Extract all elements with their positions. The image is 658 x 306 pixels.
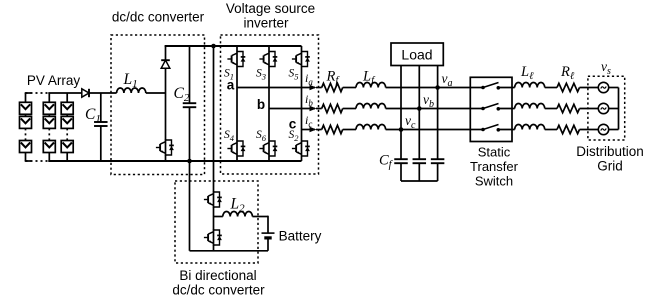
label S3 [256,68,266,82]
label PV Array [27,73,81,88]
source va grid phase a [598,82,608,92]
label Cf [379,153,394,171]
inductor Ll phase b [515,104,545,109]
label S4 [224,129,235,143]
wire Cf lower lead a [437,163,439,181]
label S1 [224,68,234,82]
PV cell column 3 row 3 [61,141,73,153]
diode D2 boost diode [161,60,170,68]
svg-text:Voltage source: Voltage source [226,1,315,16]
switch a right contact [497,86,501,90]
transistor Q2 bi-directional top IGBT [204,191,222,208]
svg-text:b: b [257,97,265,112]
wire source a to star bus [609,87,619,89]
dashed box distribution grid [588,76,625,140]
switch c blade [483,125,499,130]
label Distribution [576,144,644,159]
wire Ll to Rl phase b [545,108,557,110]
arrow ib [310,106,317,112]
wire load leg va vertical [437,66,439,160]
wire Cf lower lead c [400,163,402,181]
wire switch c right stub [498,129,514,131]
label S2 [289,129,300,143]
wire PV bottom bus dashed section [26,160,50,162]
arrow ic [310,127,317,133]
transistor Q3 bi-directional bottom IGBT [204,229,222,246]
wire load leg vc vertical [400,66,402,160]
svg-text:Switch: Switch [475,174,513,189]
wire switch a left stub [470,87,483,89]
PV cell column 1 row 1 [20,102,32,114]
resistor Rl phase b [557,104,580,112]
dashed box voltage source inverter [221,35,319,174]
wire VSI leg 1 emitter lead [236,157,238,161]
node C1 tap [100,93,102,122]
wire PV bottom bus left stub [25,160,32,162]
svg-text:Bi directional: Bi directional [179,268,256,283]
label C2 [174,85,190,104]
svg-text:Static: Static [478,145,511,160]
wire switch b left stub [470,108,483,110]
label vb [423,92,434,110]
wire boost node up to diode [165,68,167,93]
wire diode to top rail [165,46,167,60]
wire load leg vb vertical [418,66,420,160]
label phase c [289,117,297,132]
PV cell column 3 row 2 [61,116,73,128]
wire Rl to source phase b [580,108,599,110]
wire PV column 3 dashed continuation [66,128,68,140]
dashed box dc/dc converter [111,35,205,175]
wire switch b right stub [498,108,514,110]
wire Rl to source phase c [580,129,599,131]
inductor L1 [117,88,146,93]
label Rl [560,64,575,82]
battery B1 positive plate [262,232,275,234]
resistor Rl phase c [557,125,580,133]
wire source c to star bus [609,129,619,131]
transistor S4 IGBT [227,140,245,157]
label Static [478,145,511,160]
junction dot top rail battery tap [211,44,216,49]
svg-text:Grid: Grid [597,159,623,174]
wire VSI leg 1 collector lead [236,46,238,51]
wire boost node down to IGBT [165,93,167,140]
wire Lf to node phase b [386,108,471,110]
inductor Ll phase c [515,125,545,130]
inductor L2 [223,212,253,217]
resistor Rf phase b [322,104,343,112]
svg-text:Battery: Battery [279,229,322,244]
wire battery leg to bottom wire [213,246,215,251]
wire PV column 3 top lead [66,93,68,102]
transistor S3 IGBT [259,51,277,68]
switch c left contact [481,128,485,132]
capacitor C2 upper lead [189,46,191,103]
inductor Lf phase c [356,125,386,130]
junction dot vc [399,127,404,132]
wire phase b to Rf [316,108,322,110]
resistor Rf phase c [322,125,343,133]
wire phase c to Rf [316,129,322,131]
wire source b to star bus [609,108,619,110]
wire Rf to Lf phase a [343,87,356,89]
label va [442,71,453,89]
arrow ia [310,85,317,91]
wire diode to L1 input node [89,92,117,94]
svg-text:c: c [289,117,297,132]
source vc grid phase c [598,124,608,134]
wire top DC rail [165,45,302,47]
label phase b [257,97,265,112]
junction dot bottom rail battery-converter tap [187,159,192,164]
label Lf [362,69,376,87]
svg-text:dc/dc converter: dc/dc converter [112,10,205,25]
wire phase b output [269,108,315,110]
label dc/dc converter [172,283,265,298]
wire Lf to node phase c [386,129,471,131]
inductor Lf phase b [356,104,386,109]
capacitor Cf phase a [431,159,445,163]
svg-text:Load: Load [401,47,432,63]
wire C1 lower lead [100,126,102,161]
label vs [601,59,611,77]
wire PV column 1 link [25,114,27,116]
capacitor Cf phase b [413,159,427,163]
wire grid star bus [618,88,620,130]
label Grid [597,159,623,174]
label Transfer [470,159,519,174]
wire PV top bus (solid part right) [48,92,82,94]
wire PV top bus dashed section [26,92,50,94]
wire PV column 2 dashed continuation [48,128,50,140]
wire Q1 emitter to bottom rail [165,156,167,162]
PV cell column 2 row 3 [43,141,55,153]
wire phase a output [237,87,315,89]
PV cell column 2 row 2 [43,116,55,128]
transistor S6 IGBT [259,140,277,157]
diode D1 PV blocking diode [82,89,89,97]
label Bi directional [179,268,256,283]
wire switch c left stub [470,129,483,131]
svg-text:inverter: inverter [243,16,289,31]
label S5 [289,68,299,82]
inductor Ll phase a [515,83,545,88]
PV cell column 1 row 2 [20,116,32,128]
junction dot va [435,85,440,90]
label inverter [243,16,289,31]
wire bottom DC rail [48,160,301,162]
wire PV column 3 link [66,114,68,116]
wire Ll to Rl phase a [545,87,557,89]
switch b left contact [481,107,485,111]
wire Ll to Rl phase c [545,129,557,131]
wire switch a right stub [498,87,514,89]
PV cell column 2 row 1 [43,102,55,114]
wire battery negative lead [267,238,269,251]
wire VSI leg 2 emitter lead [268,157,270,161]
load box [391,43,443,66]
wire Lf to node phase a [386,87,471,89]
wire PV top bus left stub [25,92,32,94]
wire L1 to boost node [146,92,166,94]
wire VSI leg 3 collector lead [301,46,303,51]
label S6 [256,129,267,143]
transistor S5 IGBT [292,51,310,68]
label ic [305,113,312,129]
svg-text:Transfer: Transfer [470,159,519,174]
wire PV column 3 bottom lead [66,153,68,162]
switch b blade [483,104,499,109]
wire phase c output [302,129,316,131]
capacitor Cf phase c [394,159,408,163]
wire bi-directional left riser [189,161,191,251]
capacitor C1 [94,122,108,126]
label phase a [227,78,235,93]
wire battery leg middle [213,208,215,230]
transistor S1 IGBT [227,51,245,68]
wire PV column 1 bottom lead [25,153,27,162]
label ia [305,71,313,87]
label Switch [475,174,513,189]
label dc/dc converter [112,10,205,25]
wire VSI leg 2 collector lead [268,46,270,51]
label ib [305,92,313,108]
switch a left contact [481,86,485,90]
wire phase a to Rf [316,87,322,89]
label L2 [230,196,246,215]
wire VSI leg 2 middle [268,68,270,141]
wire C2 lower lead [189,107,191,161]
label Voltage source [226,1,315,16]
label Ll [520,64,534,82]
node L2 tap [214,216,223,218]
wire bi-directional bottom [190,250,269,252]
label C1 [85,106,101,125]
svg-text:PV Array: PV Array [27,73,81,88]
label Battery [279,229,322,244]
wire Cf common bus [401,180,438,182]
wire battery leg from top rail [213,46,215,192]
wire VSI leg 3 emitter lead [301,157,303,161]
switch c right contact [497,128,501,132]
wire VSI leg 3 middle [301,68,303,141]
box static transfer switch [470,77,512,141]
dashed box bi-directional dc/dc converter [175,181,258,263]
wire PV column 1 dashed continuation [25,128,27,140]
wire VSI leg 1 middle [236,68,238,141]
svg-text:a: a [227,78,235,93]
switch b right contact [497,107,501,111]
transistor S2 IGBT [292,140,310,157]
label Load [401,47,432,63]
wire Rl to source phase a [580,87,599,89]
transistor Q1 boost IGBT [156,139,174,156]
source vb grid phase b [598,103,608,113]
capacitor C2 [183,103,197,107]
resistor Rf phase a [322,83,343,91]
wire PV column 2 top lead [48,93,50,102]
label Rf [326,69,341,87]
PV cell column 3 row 1 [61,102,73,114]
wire PV column 2 link [48,114,50,116]
PV cell column 1 row 3 [20,141,32,153]
label L1 [123,71,138,90]
wire Cf lower lead b [418,163,420,181]
switch a blade [483,83,499,88]
svg-text:Distribution: Distribution [576,144,644,159]
junction dot vb [417,106,422,111]
inductor Lf phase a [356,83,386,88]
label vc [405,113,416,131]
wire PV column 2 bottom lead [48,153,50,162]
svg-text:dc/dc converter: dc/dc converter [172,283,265,298]
battery B1 negative plate [264,236,271,239]
wire L2 to battery [252,216,268,233]
wire Rf to Lf phase b [343,108,356,110]
wire Rf to Lf phase c [343,129,356,131]
wire PV column 1 top lead [25,93,27,102]
resistor Rl phase a [557,83,580,91]
